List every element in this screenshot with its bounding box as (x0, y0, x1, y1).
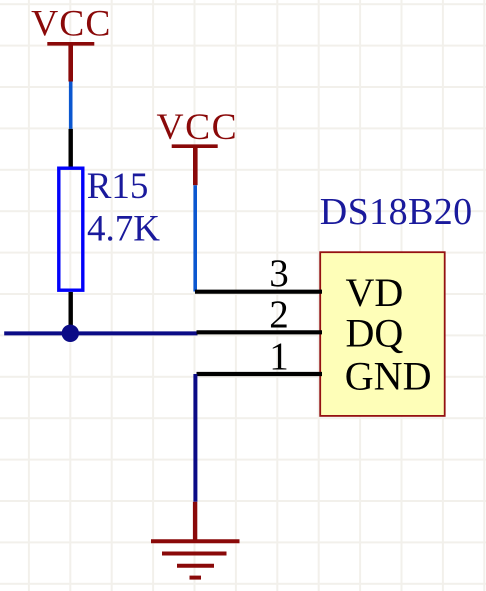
power port VCC2 symbol (172, 146, 218, 185)
wire DQ net horizontal (4, 331, 197, 335)
power port VCC1 symbol (47, 44, 94, 82)
svg-text:2: 2 (269, 293, 289, 336)
svg-text:3: 3 (269, 252, 289, 295)
pin R15.1 (68, 129, 72, 167)
svg-text:DQ: DQ (346, 310, 404, 355)
svg-text:1: 1 (269, 335, 289, 378)
pin 2 black segment (197, 330, 323, 334)
svg-text:4.7K: 4.7K (87, 208, 160, 249)
svg-text:VCC: VCC (31, 4, 111, 45)
junction node DQ (62, 325, 79, 342)
resistor R15 (59, 168, 83, 290)
wire VCC1 to R15 (blue) (69, 82, 73, 129)
svg-text:VCC: VCC (156, 107, 238, 148)
wire/pin 3 (195, 290, 322, 294)
svg-text:DS18B20: DS18B20 (320, 191, 473, 233)
pin R15.2 (68, 292, 72, 330)
svg-text:GND: GND (345, 354, 432, 399)
svg-text:VD: VD (346, 270, 404, 315)
svg-text:R15: R15 (87, 166, 149, 207)
component DS18B20 body (320, 252, 445, 416)
ground symbol (151, 502, 240, 578)
wire GND vertical (navy) (193, 374, 197, 502)
pin 1 black segment (197, 372, 323, 376)
wire VCC2 down (blue) (193, 185, 197, 291)
